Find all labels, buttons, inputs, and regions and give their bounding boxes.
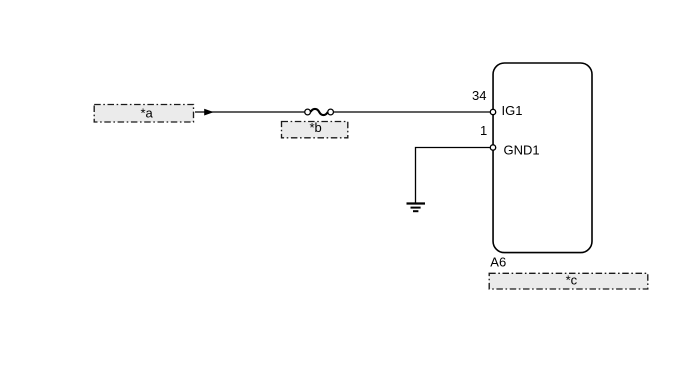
wire: pin 1 to ground xyxy=(416,148,491,203)
label box *b xyxy=(282,122,348,138)
label box *c xyxy=(489,273,648,289)
pin 34 (IG1) xyxy=(490,109,495,114)
svg-text:A6: A6 xyxy=(490,255,506,270)
ECU box A6 xyxy=(493,63,592,253)
svg-text:*a: *a xyxy=(140,106,153,121)
svg-text:IG1: IG1 xyxy=(502,103,523,118)
svg-text:*c: *c xyxy=(566,273,578,288)
fuse *b xyxy=(305,109,334,115)
arrowhead xyxy=(204,109,214,116)
svg-text:1: 1 xyxy=(480,123,487,138)
wire: fuse to pin 34 xyxy=(334,111,491,113)
svg-text:*b: *b xyxy=(309,120,321,135)
ground xyxy=(407,204,426,212)
svg-text:GND1: GND1 xyxy=(504,143,540,158)
pin 1 (GND1) xyxy=(490,145,495,150)
label box *a xyxy=(94,105,193,123)
svg-text:34: 34 xyxy=(472,88,486,103)
wire: source to fuse xyxy=(195,111,305,113)
